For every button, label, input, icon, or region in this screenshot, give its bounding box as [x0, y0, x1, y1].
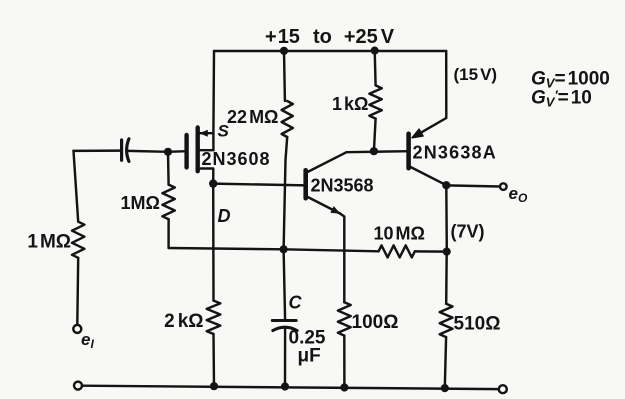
- svg-text:2kΩ: 2kΩ: [164, 311, 203, 332]
- wire 1M to input terminal: [76, 258, 79, 325]
- transistor Q2 collector lead: [409, 166, 447, 185]
- capacitor C bottom plate (curved): [273, 327, 297, 330]
- node junction 1k / Q1 collector: [370, 147, 378, 155]
- wire top supply rail: [214, 50, 446, 52]
- wire gate node down to 1M: [167, 152, 170, 185]
- wire JFET substrate lead (middle): [198, 149, 214, 151]
- node gate junction: [164, 148, 172, 156]
- node ground junction C: [281, 382, 289, 390]
- wire input left drop: [74, 151, 79, 222]
- wire JFET source to rail: [212, 51, 215, 133]
- wire feedback line left segment: [169, 248, 379, 251]
- wire Q1 base from JFET drain node: [213, 184, 306, 186]
- wire (7V) node to 510 ohm: [445, 252, 448, 304]
- wire drain node down to 2k: [212, 184, 215, 301]
- wire input line to coupling cap: [74, 149, 121, 152]
- node ground junction 510: [441, 384, 449, 392]
- node (7V) junction: [443, 248, 451, 256]
- svg-text:1kΩ: 1kΩ: [332, 94, 368, 114]
- node ground junction 100: [340, 383, 348, 391]
- transistor Q1 emitter arrow: [330, 206, 340, 214]
- wire JFET drain lead (bottom): [198, 169, 214, 184]
- svg-text:+15to+25V: +15to+25V: [265, 26, 395, 48]
- capacitor coupling right plate (curved): [127, 139, 129, 162]
- wire 2k to ground rail: [212, 334, 215, 386]
- svg-text:D: D: [218, 206, 231, 226]
- node top rail junction 1k: [371, 47, 379, 55]
- wire Q2 base lead from Q1 collector: [347, 151, 409, 152]
- wire bias node down to capacitor C: [284, 249, 286, 320]
- svg-text:C: C: [289, 293, 303, 313]
- wire 510 ohm to ground rail: [445, 337, 446, 388]
- wire JFET source lead (top): [198, 132, 214, 134]
- svg-text:(15V): (15V): [454, 65, 498, 84]
- resistor R3 22 Mohm: [282, 101, 293, 137]
- transistor U1 JFET channel bar: [195, 128, 199, 172]
- svg-text:100Ω: 100Ω: [352, 312, 399, 333]
- node top rail junction 22M: [280, 47, 288, 55]
- transistor Q1 emitter lead: [306, 196, 340, 214]
- svg-text:1MΩ: 1MΩ: [121, 193, 160, 213]
- svg-text:1MΩ: 1MΩ: [27, 232, 71, 253]
- resistor R5 2 kohm: [207, 301, 221, 334]
- wire 100 ohm to ground rail: [343, 336, 346, 388]
- wire rail to 22M: [283, 51, 286, 101]
- svg-text:GV′=10: GV′=10: [531, 88, 592, 110]
- svg-text:510Ω: 510Ω: [454, 314, 501, 335]
- transistor Q1 collector lead: [306, 152, 346, 172]
- node output ground terminal: [499, 385, 507, 393]
- resistor R6 100 ohm: [338, 302, 351, 335]
- wire 1M to feedback line corner: [167, 219, 169, 248]
- node eI input terminal: [73, 325, 81, 333]
- resistor R4 1 kohm: [369, 85, 381, 118]
- svg-text:2N3568: 2N3568: [311, 176, 374, 196]
- node JFET drain junction: [209, 179, 217, 187]
- wire right drop from rail (PNP emitter lead): [414, 51, 447, 137]
- svg-text:(7V): (7V): [451, 222, 485, 242]
- wire capacitor C to ground rail: [284, 328, 287, 387]
- resistor R2 1 Mohm (gate): [162, 185, 174, 220]
- capacitor C top plate: [272, 319, 296, 322]
- resistor R1 1 Mohm (input): [72, 222, 84, 258]
- svg-text:22MΩ: 22MΩ: [227, 107, 278, 127]
- wire feedback line right segment: [415, 250, 447, 253]
- svg-text:2N3638A: 2N3638A: [413, 143, 497, 163]
- wire output lead: [446, 185, 500, 186]
- wire 22M down to bias node: [284, 137, 288, 249]
- node eO terminal: [500, 183, 507, 190]
- transistor Q1 2N3568 base bar: [303, 170, 308, 198]
- wire JFET gate lead: [168, 150, 187, 153]
- node bias junction (C / feedback): [280, 245, 288, 253]
- svg-text:2N3608: 2N3608: [202, 149, 271, 169]
- wire 1k to Q1 collector line: [374, 119, 376, 152]
- transistor Q2 2N3638A base bar: [406, 134, 411, 168]
- wire bottom ground rail: [82, 386, 499, 389]
- resistor R8 10 Mohm: [379, 245, 415, 257]
- transistor U1 JFET source arrow: [199, 130, 208, 137]
- wire coupling cap to gate node: [128, 150, 168, 153]
- wire JFET source-substrate tie: [212, 133, 214, 150]
- wire output node down to (7V) node: [445, 185, 448, 251]
- node input ground terminal: [74, 382, 82, 390]
- resistor R7 510 ohm: [440, 304, 453, 337]
- transistor U1 JFET 2N3608 gate bar: [184, 135, 188, 167]
- svg-text:10MΩ: 10MΩ: [374, 224, 425, 244]
- svg-text:S: S: [218, 122, 230, 141]
- wire rail to 1k: [373, 51, 376, 86]
- node ground junction 2k: [210, 382, 218, 390]
- transistor Q2 2N3638A emitter arrow: [412, 129, 423, 138]
- svg-text:μF: μF: [298, 346, 321, 367]
- node output junction: [442, 181, 450, 189]
- capacitor coupling left plate: [120, 140, 123, 160]
- wire Q1 emitter down through 100 ohm: [340, 214, 344, 303]
